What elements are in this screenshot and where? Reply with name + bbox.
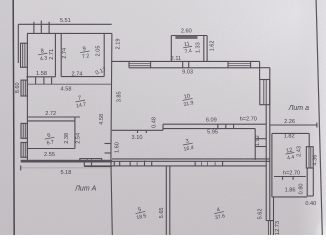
- wall room10/room3 left segment: [112, 129, 163, 131]
- svg-text:5.65: 5.65: [159, 207, 165, 218]
- svg-text:2.05: 2.05: [96, 46, 102, 57]
- svg-text:5.51: 5.51: [60, 18, 71, 24]
- svg-text:4.3: 4.3: [40, 55, 48, 62]
- window A1 on annex right wall: [306, 147, 313, 168]
- svg-text:2.71: 2.71: [49, 49, 55, 60]
- outer bottom wall (left part): [21, 160, 112, 163]
- room label 12 / 4.4: [284, 147, 295, 162]
- svg-text:Лит А: Лит А: [74, 186, 96, 193]
- window R2 bottom right wall: [266, 221, 273, 235]
- svg-text:1.60: 1.60: [114, 142, 120, 153]
- svg-text:4.36: 4.36: [312, 155, 318, 166]
- svg-text:Лит а: Лит а: [288, 105, 309, 112]
- dimension line 2.26: [270, 123, 317, 128]
- svg-text:7.4: 7.4: [184, 48, 192, 55]
- svg-text:2.11: 2.11: [171, 56, 181, 62]
- annex 12 right wall lower (double): [307, 168, 313, 196]
- right wall of room 9: [103, 33, 105, 76]
- annex 12 right wall upper: [308, 133, 310, 146]
- room label 11 / 7.4: [182, 41, 193, 56]
- svg-text:1.58: 1.58: [36, 71, 47, 77]
- svg-text:5.62: 5.62: [257, 208, 263, 219]
- svg-text:8.60: 8.60: [15, 82, 21, 93]
- svg-text:9.03: 9.03: [182, 70, 193, 76]
- room label 9 / 7.2: [79, 46, 91, 61]
- door ticks on top wall: [183, 61, 189, 67]
- door ticks room 3 east: [255, 139, 266, 147]
- svg-text:2.74: 2.74: [72, 72, 83, 78]
- left margin shading: [0, 0, 14, 235]
- svg-text:1.82: 1.82: [284, 134, 295, 140]
- annex 12 bottom wall: [272, 196, 307, 198]
- ticks on 6.09 wall: [218, 124, 234, 128]
- room 6 bottom wall: [28, 148, 75, 150]
- svg-text:h=2.70: h=2.70: [240, 116, 257, 122]
- wall room10/room3 inner: [163, 128, 255, 130]
- svg-text:2.55: 2.55: [44, 152, 55, 158]
- right inner wall: [265, 105, 267, 221]
- vestibule box above bottom wall: [80, 159, 102, 162]
- wall room10/room3 upper: [163, 123, 266, 125]
- room 3 right wall: [254, 129, 256, 160]
- svg-text:3.85: 3.85: [116, 91, 122, 102]
- svg-text:1.33: 1.33: [195, 42, 201, 53]
- top wall of room 10: [112, 60, 260, 62]
- main block left wall: [111, 33, 112, 235]
- svg-text:0.48: 0.48: [152, 117, 158, 128]
- svg-text:1.62: 1.62: [210, 40, 216, 51]
- bottom wall of room 8: [26, 76, 55, 78]
- wall between rooms 5 and 4: [166, 166, 170, 235]
- svg-text:0.80: 0.80: [299, 183, 305, 194]
- room label 5 / 18.5: [134, 206, 147, 221]
- svg-text:1.86: 1.86: [285, 187, 296, 193]
- room label 10 / 31.9: [181, 93, 194, 108]
- annex 12 left wall: [271, 133, 273, 197]
- room 11 right wall (double): [204, 36, 207, 62]
- room 6 top wall: [28, 120, 75, 122]
- annex 12 top wall: [272, 132, 309, 134]
- svg-text:2.74: 2.74: [62, 48, 68, 59]
- wall between rooms 8 and 9: [55, 33, 61, 76]
- window B1 between room3 and room5: [130, 161, 152, 167]
- svg-text:2.38: 2.38: [64, 133, 70, 144]
- svg-text:2.43: 2.43: [296, 146, 302, 157]
- svg-text:12.73: 12.73: [275, 221, 281, 235]
- dimension line 5.18: [21, 166, 112, 171]
- top wall of rooms 5 and 4: [84, 165, 266, 167]
- room label 7 / 14.7: [74, 95, 87, 110]
- svg-text:5.18: 5.18: [60, 170, 71, 176]
- window T2 on top wall: [228, 61, 251, 67]
- right outer wall: [269, 68, 271, 221]
- svg-text:0.40: 0.40: [305, 201, 316, 207]
- wall room3 bottom band: [112, 159, 270, 161]
- room 7 / room 6 dividing wall upper: [27, 116, 80, 118]
- left fold line: [13, 0, 14, 235]
- svg-text:3.10: 3.10: [132, 135, 143, 141]
- svg-text:5.95: 5.95: [207, 129, 218, 135]
- window W6a on left wall: [21, 123, 27, 138]
- inner face of top wall: [129, 67, 260, 69]
- svg-text:2.72: 2.72: [45, 111, 56, 117]
- svg-text:2.60: 2.60: [181, 29, 192, 35]
- svg-text:4.58: 4.58: [61, 86, 72, 92]
- svg-text:2.54: 2.54: [76, 133, 82, 144]
- window B2 between room3 and room4: [195, 161, 222, 166]
- bottom-right bright corner: [312, 211, 326, 235]
- facade ticks above room 8: [34, 21, 49, 34]
- svg-text:2.19: 2.19: [115, 39, 121, 50]
- room 6 right wall: [74, 117, 76, 149]
- dimension line 4.58 in room 7: [27, 77, 111, 84]
- door ticks room 3 west: [105, 144, 112, 154]
- svg-text:2.26: 2.26: [284, 119, 295, 125]
- room 4 right outer wall lower: [273, 197, 275, 235]
- step connector 0.48: [162, 124, 164, 130]
- window W6b on left wall: [21, 143, 27, 158]
- annex door dimension line: [274, 177, 306, 180]
- hatched stove band in room 11: [175, 36, 197, 39]
- bottom wall of room 9: [61, 76, 104, 78]
- vestibule below bottom wall: [84, 163, 112, 167]
- svg-text:7.2: 7.2: [82, 53, 90, 60]
- room 11 top wall: [171, 35, 207, 37]
- bright right margin beyond fold: [296, 0, 326, 235]
- window R1 on right wall: [260, 80, 270, 105]
- room 11 left wall: [170, 36, 172, 62]
- room label 4 / 37.6: [213, 206, 226, 221]
- svg-text:4.58: 4.58: [99, 114, 105, 125]
- window B0 near room5 left: [114, 161, 120, 166]
- svg-text:h=2.70: h=2.70: [283, 170, 300, 176]
- svg-text:1.92: 1.92: [255, 135, 261, 146]
- room label 3 / 16.4: [182, 138, 195, 153]
- svg-text:6.09: 6.09: [206, 118, 217, 124]
- window T1 on top wall: [129, 61, 151, 67]
- NE corner connector: [260, 61, 270, 79]
- room label 6 / 6.7: [44, 132, 56, 147]
- window W7 on left wall: [21, 80, 27, 96]
- room label 8 / 4.3: [37, 48, 49, 63]
- ticks on 3.10 wall: [138, 130, 147, 133]
- outer left wall: [26, 34, 28, 162]
- dimension line 5.51 (top): [18, 24, 111, 63]
- window on left wall of room 8: [21, 43, 28, 67]
- top wall of annex rooms 8-9: [27, 32, 112, 34]
- right fold line: [316, 0, 322, 235]
